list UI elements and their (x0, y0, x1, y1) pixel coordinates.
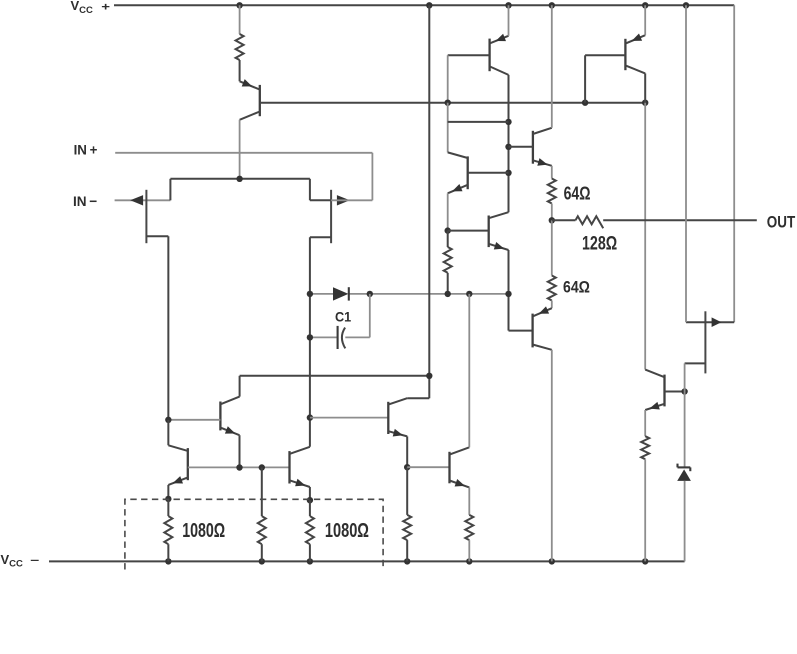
node output center (549, 217, 555, 223)
resistor R4 64ohm (548, 276, 556, 301)
resistor R10 128ohm (576, 216, 604, 228)
wire Q6 base link (509, 330, 533, 332)
node Q9 emitter node (165, 496, 171, 502)
resistor R1 (236, 34, 244, 60)
wire R5 top lead (167, 499, 169, 516)
transistor Q1 (240, 79, 260, 120)
wire Q2 base drop (447, 55, 449, 102)
wire Q9 collector (167, 420, 169, 446)
wire Q14 source tap (685, 362, 706, 364)
wire Q14 source drop (684, 363, 686, 391)
capacitor C1 (310, 294, 370, 349)
node y467 taps (236, 464, 265, 470)
wire Q5 emitter run (508, 250, 510, 331)
svg-text:1080Ω: 1080Ω (325, 519, 369, 542)
node C1 left (307, 334, 313, 340)
wire J1 source run (167, 236, 169, 420)
wire OUT lead (552, 219, 576, 221)
wire Q3 base drop (584, 55, 586, 102)
label OUT (767, 214, 795, 232)
wire Q4 emitter (447, 193, 449, 230)
resistor R8 (403, 515, 411, 540)
wire Q12 base link (407, 466, 449, 468)
node Q11 emitter node (404, 464, 410, 470)
wire IN- lead (115, 199, 171, 201)
wire R8 bottom lead (406, 540, 408, 561)
label 1080ohm right (325, 519, 369, 542)
wire comp net y294 (310, 293, 509, 295)
wire Q8 emitter (239, 435, 241, 467)
wire R1 bottom lead (239, 60, 241, 81)
wire x429 drop (428, 5, 430, 398)
wire R5 bottom lead (167, 544, 169, 561)
node base bus taps (445, 100, 649, 106)
node Q4 emitter node (445, 227, 451, 233)
wire Q12 emitter (468, 487, 470, 515)
transistor Q8 (168, 397, 239, 436)
label C1 (335, 309, 351, 325)
wire J2 source run (309, 237, 311, 447)
wire Q7 collector (551, 5, 553, 128)
transistor Q10 (290, 447, 310, 487)
wire Q11 emitter (406, 436, 408, 467)
transistor J2 gate arrow (337, 195, 350, 205)
node Q10 emitter node (307, 497, 313, 503)
wire J2 source tap (310, 236, 331, 238)
wire R3 bottom lead (551, 204, 553, 221)
wire VCC+ rail right drop (733, 5, 735, 322)
label IN+ (74, 141, 98, 157)
label 64ohm lower (563, 279, 590, 297)
wire R11 top lead (644, 410, 646, 436)
wire Q3 collector (644, 73, 646, 102)
resistor R2 (444, 247, 452, 273)
transistor Q13 (645, 370, 684, 410)
wire Q4 collector link (448, 103, 509, 153)
resistor R11 (641, 436, 649, 459)
transistor Q12 (450, 447, 470, 487)
node VCC- taps (165, 558, 648, 564)
svg-text:IN −: IN − (73, 193, 97, 209)
wire R8 top lead (406, 467, 408, 515)
label VCC- (1, 552, 40, 570)
wire R11 bottom lead (644, 459, 646, 561)
wire R3 top lead (551, 166, 553, 179)
wire J1 drain tap (169, 179, 171, 201)
transistor Q4 (448, 152, 509, 193)
wire Q2 collector run (508, 75, 510, 212)
label 128ohm (582, 234, 617, 255)
wire Q3 emitter (644, 5, 646, 35)
wire Q6 collector run (551, 350, 553, 562)
svg-text:64Ω: 64Ω (563, 279, 590, 297)
resistor R9 (465, 515, 473, 540)
node VCC+ taps (236, 2, 689, 8)
wire zener bottom lead (684, 481, 686, 562)
node comp taps (307, 291, 512, 297)
resistor R7 1080ohm (306, 516, 314, 544)
wire R6 top lead (261, 468, 263, 517)
transistor J1 (145, 190, 147, 243)
wire J2 drain tap (310, 179, 331, 201)
wire Q14 left riser (685, 5, 687, 322)
wire R7 top lead (309, 500, 311, 516)
transistor J2 (330, 190, 332, 243)
dashed box 1080 pair (125, 499, 383, 569)
wire Q2 emitter (508, 5, 510, 36)
node y376 join (426, 373, 432, 379)
transistor Q9 (168, 445, 187, 485)
node Q8 base node (165, 417, 171, 423)
diode D1 (333, 287, 349, 300)
wire R4 top lead (551, 220, 553, 275)
wire Q8 collector (239, 376, 241, 397)
wire R2 top lead (447, 231, 449, 247)
svg-text:1080Ω: 1080Ω (182, 519, 225, 542)
wire Q1 collector (239, 120, 241, 179)
resistor R3 64ohm (548, 179, 556, 204)
wire R7 bottom lead (309, 544, 311, 561)
node Q13 base node (681, 388, 687, 394)
wire VCC- rail (49, 560, 685, 562)
wire drain bus y179 (170, 178, 310, 180)
wire VCC+ rail (114, 4, 734, 6)
wire R9 bottom lead (468, 540, 470, 561)
wire y376 bus (240, 375, 430, 377)
zener DZ1 (677, 464, 691, 481)
svg-text:OUT: OUT (767, 214, 795, 232)
wire J2 gate (331, 199, 372, 201)
svg-text:C1: C1 (335, 309, 351, 325)
wire base bus y103 (260, 102, 645, 104)
wire R2 bottom lead (447, 273, 449, 294)
transistor Q14 (686, 311, 734, 373)
label 64ohm upper (564, 184, 591, 204)
wire Q10 emitter (309, 487, 311, 500)
svg-text:IN +: IN + (74, 141, 98, 157)
transistor Q5 (448, 212, 509, 250)
wire R1 top lead (239, 5, 241, 34)
transistor J1 gate arrow (130, 195, 143, 205)
svg-text:64Ω: 64Ω (564, 184, 591, 204)
node K base tap (307, 414, 313, 420)
wire IN+ lead (115, 153, 372, 201)
node drains join Q1 (236, 176, 242, 182)
label VCC+ (71, 0, 111, 16)
wire Q9 emitter (167, 485, 169, 499)
wire zener top lead (684, 392, 686, 468)
wire base bus y467 (188, 466, 290, 468)
label IN- (73, 193, 97, 209)
wire Q11 collector link (407, 397, 429, 399)
transistor Q11 (388, 398, 407, 436)
wire J1 source tap (146, 235, 168, 237)
wire OUT line (603, 219, 757, 221)
wire R4 bottom lead (551, 301, 553, 309)
wire Q12 collector run (468, 294, 470, 447)
svg-text:128Ω: 128Ω (582, 234, 617, 255)
transistor Q14 gate arrow (712, 317, 722, 327)
wire R6 bottom lead (261, 544, 263, 561)
transistor Q2 (448, 34, 509, 75)
resistor R6 (258, 516, 266, 544)
wire Q3 collector run (644, 103, 646, 370)
node x508 taps (505, 119, 511, 176)
transistor Q7 (509, 128, 552, 166)
label 1080ohm left (182, 519, 225, 542)
wire Q11 base link (310, 417, 388, 419)
transistor Q3 (585, 34, 645, 74)
resistor R5 1080ohm (164, 516, 172, 544)
transistor Q6 (533, 306, 552, 349)
